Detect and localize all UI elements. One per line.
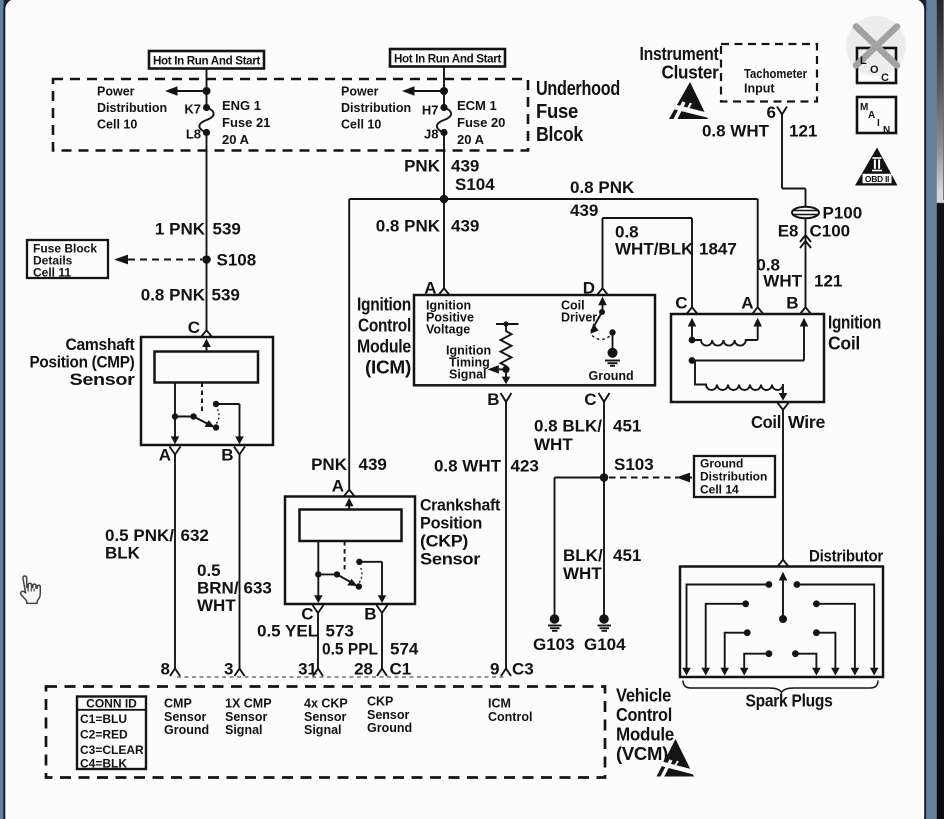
label Ignition Control Module (ICM): [357, 294, 411, 378]
pin A of CMP: [159, 446, 181, 465]
brace spark plugs: [683, 681, 878, 693]
svg-text:I: I: [877, 118, 880, 129]
spark plug wire 5 (far right): [794, 581, 879, 675]
ground symbol (ICM internal): [605, 348, 620, 366]
fuse ECM 1 Fuse 20 20 A: [422, 98, 506, 147]
svg-text:(VCM): (VCM): [616, 743, 668, 764]
svg-text:Tachometer: Tachometer: [744, 67, 807, 81]
svg-text:451: 451: [613, 417, 641, 436]
svg-text:0.5: 0.5: [197, 561, 221, 580]
svg-text:6: 6: [767, 103, 776, 122]
label Ignition Positive Voltage: [426, 299, 474, 337]
CMP internal switch: [171, 383, 244, 445]
dashed box Underhood Fuse Block: [53, 79, 528, 151]
label Coil Driver: [561, 299, 597, 325]
label 0.8 PNK 439 (ICM A): [376, 217, 480, 236]
svg-text:C2=RED: C2=RED: [80, 728, 128, 742]
svg-text:Fuse 20: Fuse 20: [457, 115, 505, 130]
svg-text:1X CMP: 1X CMP: [225, 697, 272, 711]
svg-text:C: C: [881, 72, 889, 84]
wire arrow to power distribution (right): [402, 86, 448, 95]
svg-text:1 PNK: 1 PNK: [155, 220, 206, 239]
dark top corner fills: [4, 0, 18, 11]
svg-text:Sensor: Sensor: [70, 370, 136, 389]
pin 31: [298, 660, 323, 679]
box Hot In Run And Start (right): [390, 49, 505, 67]
svg-text:CKP: CKP: [367, 695, 393, 709]
svg-text:H7: H7: [422, 103, 439, 118]
svg-text:Ground: Ground: [164, 723, 209, 737]
arrow into CKP: [345, 498, 354, 510]
svg-text:A: A: [332, 477, 344, 496]
svg-text:P100: P100: [823, 204, 863, 223]
svg-text:K7: K7: [184, 102, 201, 117]
wire 0.8 WHT 121 lower to coil B: [756, 218, 842, 307]
fuse ENG 1 Fuse 21 20 A: [184, 98, 270, 147]
svg-text:Distribution: Distribution: [700, 470, 767, 484]
svg-text:20 A: 20 A: [457, 132, 485, 147]
spark plug wire 6: [813, 600, 859, 675]
spark plug wire 4: [740, 650, 772, 675]
svg-text:20 A: 20 A: [222, 132, 250, 147]
svg-text:CMP: CMP: [164, 697, 192, 711]
svg-text:Signal: Signal: [225, 723, 263, 737]
svg-text:Sensor: Sensor: [304, 710, 347, 724]
wire ICM C down (0.8 BLK/WHT 451): [534, 402, 641, 478]
svg-text:(CKP): (CKP): [420, 532, 468, 551]
svg-text:Control: Control: [358, 315, 411, 336]
wire S104 down to CKP A: [348, 199, 350, 490]
wire 0.5 YEL 573: [257, 613, 354, 669]
svg-text:Signal: Signal: [449, 367, 487, 381]
wire S103 branch to G103: [555, 477, 605, 479]
svg-text:WHT/BLK: WHT/BLK: [615, 240, 694, 259]
svg-text:439: 439: [359, 455, 387, 474]
label Power Distribution Cell 10 (left): [97, 85, 167, 132]
svg-text:0.5 YEL: 0.5 YEL: [257, 622, 318, 641]
svg-text:633: 633: [244, 579, 272, 598]
svg-text:0.8 PNK: 0.8 PNK: [376, 217, 441, 236]
svg-text:Cell 14: Cell 14: [700, 483, 739, 497]
svg-text:Sensor: Sensor: [367, 708, 410, 722]
svg-text:A: A: [868, 110, 875, 121]
svg-text:WHT: WHT: [563, 564, 602, 583]
label Ignition Coil: [828, 313, 881, 354]
svg-text:BRN/: BRN/: [197, 579, 239, 598]
svg-text:539: 539: [213, 220, 241, 239]
module distributor box: [680, 567, 883, 678]
dashed box VCM: [46, 687, 605, 778]
svg-text:573: 573: [326, 622, 354, 641]
svg-text:423: 423: [511, 457, 539, 476]
svg-text:Ground: Ground: [367, 721, 412, 735]
wire coil wire: [751, 403, 826, 560]
svg-text:Distribution: Distribution: [97, 101, 167, 115]
node S108: [114, 251, 256, 270]
svg-text:G104: G104: [584, 635, 626, 654]
svg-text:B: B: [786, 294, 798, 313]
wire 0.5 PNK/BLK 632: [105, 455, 209, 669]
svg-text:Spark Plugs: Spark Plugs: [746, 691, 833, 711]
svg-text:121: 121: [789, 122, 817, 141]
spark plug wire 2: [701, 600, 749, 675]
svg-text:Signal: Signal: [304, 723, 342, 737]
connector P100 C100: [778, 204, 863, 241]
svg-text:S108: S108: [217, 251, 257, 270]
ground G104: [584, 614, 626, 654]
icon LOC box: [857, 48, 896, 83]
wire fuse J8 down to ICM A: [443, 133, 445, 289]
svg-text:Distributor: Distributor: [809, 547, 884, 566]
svg-text:S104: S104: [455, 175, 495, 194]
spark plug wire 1 (far left): [682, 581, 772, 675]
svg-text:121: 121: [814, 272, 842, 291]
wire S104 to coil A: [757, 199, 759, 308]
svg-text:Module: Module: [357, 336, 411, 357]
label CMP Sensor Ground: [164, 697, 209, 738]
svg-text:Crankshaft: Crankshaft: [420, 496, 501, 515]
svg-text:Ignition: Ignition: [357, 294, 411, 315]
svg-text:C3: C3: [512, 660, 534, 679]
svg-text:Ground: Ground: [700, 457, 743, 471]
pin 6 connector Y: [767, 103, 787, 122]
svg-text:L: L: [860, 55, 867, 67]
wire hot2 to fuse ECM1: [443, 67, 445, 107]
svg-text:N: N: [883, 125, 890, 136]
svg-text:439: 439: [451, 157, 479, 176]
svg-text:C: C: [675, 294, 687, 313]
wire BLK/WHT 451 to G104: [563, 478, 641, 615]
svg-text:539: 539: [212, 286, 240, 305]
connector dashed line C2: [177, 676, 504, 678]
wire S104 horizontal bus: [349, 198, 758, 200]
svg-text:Coil: Coil: [751, 412, 781, 432]
svg-text:Fuse 21: Fuse 21: [222, 115, 270, 130]
svg-text:C1=BLU: C1=BLU: [80, 712, 127, 726]
svg-text:A: A: [741, 294, 753, 313]
svg-text:Blcok: Blcok: [536, 124, 584, 146]
svg-text:Cell 10: Cell 10: [97, 118, 137, 132]
close X: [856, 27, 897, 66]
svg-text:3: 3: [224, 660, 233, 679]
svg-text:9: 9: [490, 660, 499, 679]
label 0.8 PNK 539: [141, 286, 240, 305]
icon OBD II triangle: [855, 148, 898, 186]
spark plug wire 3: [720, 629, 750, 675]
svg-text:C1: C1: [390, 660, 412, 679]
pin 9 C3: [490, 660, 534, 679]
spark plug wire 7: [813, 629, 840, 675]
dashed box Tachometer Input: [721, 44, 817, 102]
label 1X CMP Sensor Signal: [225, 697, 272, 738]
svg-text:Distribution: Distribution: [341, 101, 411, 115]
distributor rotor arrow: [779, 572, 788, 623]
svg-text:O: O: [870, 64, 879, 76]
svg-text:574: 574: [390, 640, 419, 659]
coil primary winding: [689, 337, 758, 346]
pin A of ICM: [424, 279, 449, 298]
svg-text:0.8 PNK: 0.8 PNK: [570, 178, 635, 197]
wire ICM D to coil C (0.8 WHT/BLK 1847): [603, 218, 737, 308]
svg-text:Wire: Wire: [788, 412, 826, 432]
box Fuse Block Details Cell 11: [27, 240, 108, 280]
wire hot1 to fuse ENG1: [206, 69, 208, 108]
svg-text:Underhood: Underhood: [536, 78, 620, 100]
svg-text:Module: Module: [616, 724, 674, 745]
svg-text:Input: Input: [744, 82, 775, 96]
ESD symbol VCM: [655, 739, 697, 777]
connector into distributor: [778, 560, 789, 567]
svg-text:Cluster: Cluster: [662, 63, 719, 83]
node S103: [600, 455, 692, 482]
svg-text:BLK: BLK: [105, 544, 141, 563]
pin D of ICM: [583, 279, 608, 298]
svg-text:1847: 1847: [699, 240, 737, 259]
resistor ignition timing: [488, 321, 519, 384]
svg-text:28: 28: [354, 660, 373, 679]
svg-text:PNK: PNK: [311, 455, 348, 474]
close button circle: [846, 16, 906, 76]
pin 3: [224, 660, 244, 679]
LOC letters: [860, 55, 889, 84]
svg-text:WHT: WHT: [534, 435, 573, 454]
wire 0.5 BRN/WHT 633: [197, 455, 272, 669]
label 4x CKP Sensor Signal: [304, 697, 348, 738]
label 0.8 PNK 439 (bus): [570, 178, 635, 220]
svg-text:Ignition: Ignition: [828, 313, 881, 333]
svg-text:Driver: Driver: [561, 310, 597, 324]
svg-text:C100: C100: [810, 222, 851, 241]
svg-text:A: A: [159, 446, 171, 465]
ground G103: [533, 614, 575, 654]
svg-text:C4=BLK: C4=BLK: [80, 757, 127, 771]
label Crankshaft Position (CKP) Sensor: [420, 496, 501, 569]
cursor: [21, 576, 41, 603]
pin B of ICM: [487, 390, 511, 409]
svg-text:0.8 BLK/: 0.8 BLK/: [534, 417, 602, 436]
svg-text:Sensor: Sensor: [164, 710, 207, 724]
box Hot In Run And Start (left): [149, 51, 264, 69]
svg-text:Sensor: Sensor: [420, 550, 481, 569]
svg-text:C: C: [188, 318, 200, 337]
arrow into CMP: [202, 339, 211, 352]
node S104: [440, 175, 496, 203]
label Underhood Fuse Blcok: [536, 78, 620, 146]
svg-text:S103: S103: [614, 455, 654, 474]
svg-text:G103: G103: [533, 635, 575, 654]
pin 8: [161, 660, 180, 679]
sensor CMP box: [141, 337, 273, 445]
svg-text:ENG 1: ENG 1: [222, 98, 261, 113]
label ICM Control: [488, 697, 532, 724]
svg-text:C3=CLEAR: C3=CLEAR: [80, 743, 144, 757]
svg-text:J8: J8: [424, 127, 438, 142]
svg-text:Fuse: Fuse: [536, 101, 578, 123]
sensor CKP box: [285, 497, 415, 605]
svg-text:ECM 1: ECM 1: [457, 98, 497, 113]
svg-text:E8: E8: [778, 222, 799, 241]
module ICM box: [414, 295, 655, 385]
svg-text:8: 8: [161, 660, 170, 679]
svg-text:632: 632: [181, 526, 209, 545]
svg-text:B: B: [487, 390, 499, 409]
svg-text:Sensor: Sensor: [225, 710, 268, 724]
svg-text:Hot In Run And Start: Hot In Run And Start: [153, 54, 260, 68]
svg-text:Instrument: Instrument: [640, 44, 719, 64]
svg-text:Position: Position: [420, 514, 482, 533]
svg-text:Power: Power: [97, 85, 135, 99]
svg-text:(ICM): (ICM): [365, 357, 411, 378]
svg-text:CONN ID: CONN ID: [86, 697, 137, 711]
svg-text:0.8 PNK: 0.8 PNK: [141, 286, 206, 305]
svg-text:0.5 PNK/: 0.5 PNK/: [105, 526, 174, 545]
box Ground Distribution Cell 14: [694, 456, 775, 497]
svg-text:PNK: PNK: [404, 157, 441, 176]
pin C of CKP: [301, 605, 323, 624]
label Ignition Timing Signal: [446, 344, 491, 382]
label Vehicle Control Module (VCM): [616, 685, 674, 765]
pin B of CKP: [364, 605, 387, 624]
svg-text:4x CKP: 4x CKP: [304, 697, 348, 711]
svg-text:0.8 WHT: 0.8 WHT: [434, 457, 502, 476]
switch coil driver: [590, 297, 615, 350]
right scrollbar dark strip: [937, 0, 944, 819]
svg-text:Cell 11: Cell 11: [33, 266, 71, 280]
svg-text:Vehicle: Vehicle: [616, 685, 671, 706]
svg-text:B: B: [221, 446, 233, 465]
wire arrow to power distribution (left): [165, 86, 211, 95]
svg-text:A: A: [424, 279, 436, 298]
svg-text:439: 439: [451, 217, 479, 236]
svg-text:Control: Control: [488, 710, 532, 724]
right blue strip: [926, 0, 937, 819]
svg-text:Voltage: Voltage: [426, 322, 470, 336]
pin A of CKP: [332, 477, 355, 497]
svg-text:BLK/: BLK/: [563, 546, 603, 565]
svg-text:Power: Power: [341, 85, 379, 99]
svg-text:OBD II: OBD II: [865, 174, 889, 184]
module ignition coil box: [671, 314, 824, 402]
icon MAIN box: [857, 97, 896, 136]
ESD symbol instrument cluster: [667, 82, 711, 120]
svg-text:Cell 10: Cell 10: [341, 118, 381, 132]
label 1 PNK 539: [155, 220, 241, 239]
svg-text:Coil: Coil: [828, 334, 860, 354]
label Camshaft Position (CMP) Sensor: [30, 335, 136, 389]
wire ICM B down (0.8 WHT 423): [434, 402, 539, 669]
svg-text:B: B: [364, 605, 376, 624]
label PNK 439 (CKP A): [311, 455, 387, 474]
pin B of coil: [786, 294, 811, 315]
wire 0.5 PPL 574: [322, 613, 419, 669]
pin C of CMP: [188, 318, 212, 337]
spark plug wire 8: [792, 650, 821, 675]
svg-text:D: D: [583, 279, 595, 298]
coil secondary winding: [689, 357, 804, 401]
svg-text:451: 451: [613, 546, 641, 565]
pin C of coil: [675, 294, 697, 315]
pin C of ICM: [584, 390, 609, 409]
CKP internal switch: [314, 541, 386, 603]
svg-text:Hot In Run And Start: Hot In Run And Start: [394, 52, 501, 66]
label CKP Sensor Ground: [367, 695, 412, 736]
svg-text:ICM: ICM: [488, 697, 511, 711]
label Power Distribution Cell 10 (right): [341, 85, 411, 132]
svg-text:Ground: Ground: [589, 369, 634, 383]
wire 0.8 WHT 121 upper: [702, 115, 817, 208]
wire fuse L8 down to CMP C: [206, 133, 208, 331]
svg-text:Position (CMP): Position (CMP): [30, 353, 135, 372]
svg-text:C: C: [584, 390, 596, 409]
coil internal arrows: [688, 318, 809, 361]
box CONN ID: [77, 697, 146, 771]
pin 28 C1: [354, 660, 411, 679]
label PNK 439: [404, 157, 479, 176]
pin A of coil: [741, 294, 763, 315]
svg-text:0.5 PPL: 0.5 PPL: [322, 640, 378, 659]
pin B of CMP: [221, 446, 245, 465]
svg-text:Camshaft: Camshaft: [66, 335, 136, 354]
svg-text:L8: L8: [186, 127, 201, 142]
label Instrument Cluster: [640, 44, 719, 83]
svg-text:WHT: WHT: [763, 272, 802, 291]
svg-text:WHT: WHT: [197, 596, 236, 615]
svg-text:Control: Control: [616, 704, 672, 725]
svg-text:0.8 WHT: 0.8 WHT: [702, 122, 770, 141]
svg-text:439: 439: [570, 201, 598, 220]
